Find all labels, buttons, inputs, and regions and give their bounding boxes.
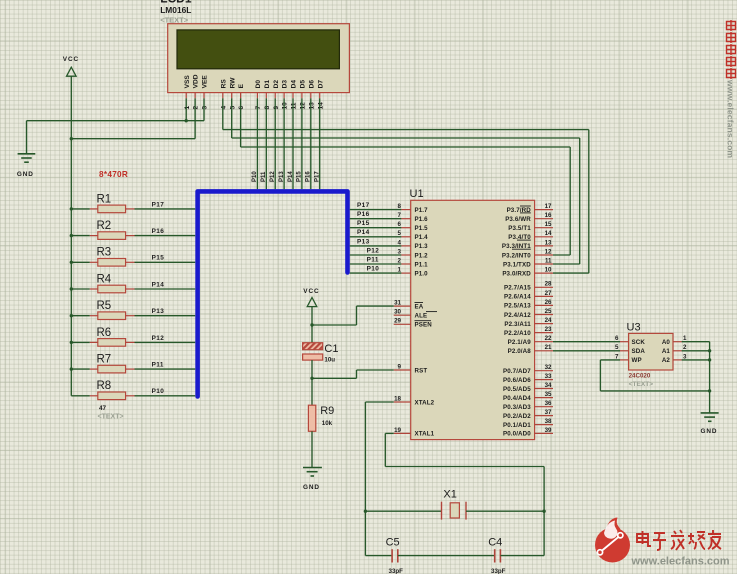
svg-text:SCK: SCK (632, 339, 646, 346)
svg-text:GND: GND (17, 171, 34, 178)
wire bus to U1 P1.3, net P13 (350, 238, 402, 246)
svg-text:6: 6 (398, 221, 402, 228)
svg-text:D6: D6 (308, 80, 315, 89)
resistor R6 (71, 327, 195, 346)
svg-text:P12: P12 (152, 335, 165, 342)
wire D5 (LCD pin12) down to bus, net P15 (297, 98, 303, 189)
ground symbol (left) (17, 154, 35, 178)
svg-text:21: 21 (545, 344, 552, 351)
U1 pin 17 (P3.7/RD) (507, 203, 553, 214)
svg-text:1: 1 (398, 267, 402, 274)
U3 pin 7 (WP) (615, 353, 642, 364)
svg-text:15: 15 (545, 221, 552, 228)
svg-text:P14: P14 (357, 229, 370, 236)
svg-text:24C020: 24C020 (629, 372, 651, 379)
svg-text:P3.0/RXD: P3.0/RXD (502, 270, 531, 277)
U1 pin 21 (P2.0/A8) (508, 344, 553, 355)
svg-text:P10: P10 (252, 171, 258, 182)
svg-text:30: 30 (394, 309, 401, 316)
U1 pin 24 (P2.3/A11) (504, 317, 553, 328)
svg-text:D4: D4 (291, 80, 298, 89)
U1 pin 1 (P1.0) (398, 267, 429, 278)
svg-text:8: 8 (398, 203, 402, 210)
U1 pin 28 (P2.7/A15) (504, 281, 553, 292)
U1 pin 36 (P0.3/AD3) (503, 400, 553, 411)
svg-text:P10: P10 (367, 266, 380, 273)
U1 pin 33 (P0.6/AD6) (503, 373, 553, 384)
wire C4 right lead (500, 555, 544, 557)
U1 pin 5 (P1.4) (398, 230, 429, 241)
wire crystal left lead (365, 510, 441, 512)
LCD1 pin 8 (D1) (264, 80, 271, 110)
wire bus to U1 P1.0, net P10 (350, 266, 402, 274)
svg-text:R4: R4 (97, 273, 112, 285)
svg-text:www.elecfans.com: www.elecfans.com (631, 556, 730, 568)
svg-text:R1: R1 (97, 193, 112, 205)
U1 pin 34 (P0.5/AD5) (503, 382, 553, 393)
svg-text:WP: WP (632, 357, 642, 364)
svg-text:P2.3/A11: P2.3/A11 (504, 321, 531, 328)
U1 pin 29 (PSEN) (394, 318, 433, 329)
svg-text:P15: P15 (297, 171, 303, 182)
svg-text:18: 18 (394, 395, 401, 402)
svg-text:GND: GND (701, 428, 718, 435)
svg-text:VCC: VCC (63, 56, 79, 63)
svg-text:VCC: VCC (303, 288, 319, 295)
svg-text:P1.3: P1.3 (415, 243, 429, 250)
wire GND stub down to ground symbol (26, 121, 28, 154)
svg-text:A0: A0 (662, 339, 671, 346)
U1 pin 7 (P1.6) (398, 212, 429, 223)
svg-text:www.elecfans.com: www.elecfans.com (726, 79, 736, 158)
wire VCC rail vertical (resistor common rail) (70, 76, 72, 396)
svg-text:5: 5 (615, 344, 619, 351)
U1 pin 37 (P0.2/AD2) (503, 409, 553, 420)
wire D7 (LCD pin14) down to bus, net P17 (315, 98, 321, 189)
svg-text:10u: 10u (324, 357, 335, 364)
svg-text:U1: U1 (410, 188, 424, 200)
svg-text:10: 10 (545, 267, 552, 274)
svg-text:36: 36 (545, 400, 552, 407)
svg-text:P0.2/AD2: P0.2/AD2 (503, 413, 531, 420)
svg-text:ALE: ALE (415, 313, 428, 320)
wire EA (pin31) to VCC rail (357, 305, 394, 307)
svg-text:R3: R3 (97, 247, 112, 259)
svg-text:8*470R: 8*470R (99, 170, 128, 179)
svg-text:13: 13 (308, 102, 315, 110)
svg-text:XTAL1: XTAL1 (415, 431, 435, 438)
svg-text:RS: RS (220, 79, 227, 89)
svg-text:P13: P13 (357, 238, 370, 245)
svg-text:C4: C4 (488, 537, 502, 549)
bus wire (blue) (198, 191, 348, 396)
wire crystal right lead (466, 510, 544, 512)
svg-text:47: 47 (99, 405, 107, 412)
svg-text:P16: P16 (357, 211, 370, 218)
svg-text:14: 14 (545, 230, 552, 237)
svg-text:9: 9 (273, 106, 280, 110)
svg-text:P2.6/A14: P2.6/A14 (504, 294, 531, 301)
svg-text:A2: A2 (662, 357, 671, 364)
U1 pin 10 (P3.0/RXD) (502, 267, 553, 278)
svg-text:33pF: 33pF (389, 568, 404, 574)
svg-text:13: 13 (545, 239, 552, 246)
ground symbol (right, below U3) (701, 413, 719, 435)
wire E (LCD pin6) to U1 P3.2 pin12 (240, 98, 242, 147)
svg-text:P13: P13 (279, 171, 285, 182)
svg-text:R2: R2 (97, 220, 112, 232)
LCD1 pin 14 (D7) (317, 80, 324, 110)
svg-text:P0.3/AD3: P0.3/AD3 (503, 404, 531, 411)
wire C1 to R9 junction (311, 360, 313, 405)
wire VSS (LCD pin1) down to GND rail (185, 98, 187, 120)
svg-text:P3.5/T1: P3.5/T1 (508, 225, 531, 232)
wire U3 A2 to ground net (682, 359, 710, 361)
svg-text:P11: P11 (152, 362, 164, 369)
svg-text:P3.1/TXD: P3.1/TXD (503, 261, 531, 268)
svg-text:P17: P17 (315, 171, 321, 182)
svg-text:D2: D2 (273, 80, 280, 89)
U1 pin 19 (XTAL1) (394, 427, 435, 438)
svg-text:P1.6: P1.6 (415, 216, 429, 223)
U1 pin 32 (P0.7/AD7) (503, 364, 553, 375)
svg-text:10k: 10k (322, 420, 333, 427)
wire VCC down to C1 (311, 307, 313, 343)
LCD1 pin 7 (D0) (255, 80, 262, 110)
wire C5 to C4 (398, 555, 495, 557)
wire U1 P2.1/A9 (pin22) to U3 SCK (553, 341, 620, 343)
svg-text:P1.7: P1.7 (415, 207, 429, 214)
svg-text:<TEXT>: <TEXT> (160, 15, 189, 24)
svg-text:P16: P16 (306, 171, 312, 182)
svg-text:XTAL2: XTAL2 (415, 399, 435, 406)
svg-text:P2.4/A12: P2.4/A12 (504, 312, 531, 319)
resistor R2 (71, 220, 195, 239)
wire RW (LCD pin5) to U1 P3.1 pin11 (231, 98, 233, 138)
LCD1 pin 6 (E) (238, 83, 245, 109)
svg-text:23: 23 (545, 326, 552, 333)
svg-text:VDD: VDD (193, 74, 200, 88)
resistor R4 (71, 273, 195, 292)
wire C5 left lead (365, 555, 392, 557)
wire U1 P2.0/A8 (pin21) to U3 SDA (553, 350, 620, 352)
U1 pin 11 (P3.1/TXD) (503, 257, 553, 268)
svg-text:P0.6/AD6: P0.6/AD6 (503, 377, 531, 384)
svg-text:10: 10 (282, 102, 289, 110)
svg-text:RST: RST (415, 367, 428, 374)
svg-text:P11: P11 (261, 171, 267, 182)
watermark text (Chinese glyph strokes) (637, 530, 721, 550)
svg-text:D3: D3 (282, 80, 289, 89)
svg-text:U3: U3 (627, 322, 641, 334)
LCD1 pin 5 (RW) (229, 77, 236, 110)
svg-text:LM016L: LM016L (160, 5, 191, 15)
svg-text:2: 2 (398, 257, 402, 264)
svg-text:RW: RW (229, 77, 236, 89)
svg-text:P2.7/A15: P2.7/A15 (504, 285, 531, 292)
svg-text:R7: R7 (97, 354, 112, 366)
svg-text:7: 7 (255, 106, 262, 110)
capacitor C4 33pF (488, 537, 505, 574)
svg-text:12: 12 (545, 248, 552, 255)
U1 pin 16 (P3.6/WR) (505, 212, 553, 223)
U1 pin 30 (ALE) (394, 309, 437, 320)
svg-text:D5: D5 (300, 80, 307, 89)
wire U3 A0 to ground net (682, 341, 710, 343)
svg-text:P0.1/AD1: P0.1/AD1 (503, 422, 531, 429)
svg-text:9: 9 (398, 363, 402, 370)
U1 pin 14 (P3.4/T0) (508, 230, 553, 241)
svg-text:26: 26 (545, 299, 552, 306)
svg-text:38: 38 (545, 418, 552, 425)
crystal X1 (442, 489, 467, 520)
U1 pin 23 (P2.2/A10) (504, 326, 553, 337)
LCD1 pin 2 (VDD) (193, 74, 200, 109)
svg-text:14: 14 (317, 102, 324, 110)
svg-text:34: 34 (545, 382, 552, 389)
U1 pin 3 (P1.2) (398, 248, 429, 259)
svg-text:5: 5 (229, 106, 236, 110)
wire bus to U1 P1.4, net P14 (350, 229, 402, 237)
svg-text:C1: C1 (324, 343, 338, 355)
svg-text:SDA: SDA (632, 348, 646, 355)
wire U3 WP to ground net (600, 359, 620, 361)
svg-text:37: 37 (545, 409, 552, 416)
wire D1 (LCD pin8) down to bus, net P11 (261, 98, 267, 189)
svg-text:17: 17 (545, 203, 552, 210)
svg-text:24: 24 (545, 317, 552, 324)
svg-text:R5: R5 (97, 300, 112, 312)
svg-text:29: 29 (394, 318, 401, 325)
svg-text:<TEXT>: <TEXT> (98, 413, 124, 420)
svg-text:3: 3 (202, 106, 209, 110)
LCD1 pin 4 (RS) (220, 79, 227, 110)
svg-text:D7: D7 (317, 80, 324, 89)
wire VDD (LCD pin2) down and left to VCC rail (194, 98, 196, 138)
U1 pin 35 (P0.4/AD4) (503, 391, 553, 402)
resistor R3 (71, 247, 195, 266)
U1 pin 22 (P2.1/A9) (508, 335, 553, 346)
svg-text:R9: R9 (320, 405, 334, 417)
svg-text:4: 4 (220, 106, 227, 110)
MCU U1 (8051) body (410, 188, 535, 440)
watermark vertical text (right edge) (727, 20, 736, 79)
svg-text:P0.4/AD4: P0.4/AD4 (503, 395, 531, 402)
capacitor C1 10u (electrolytic) (303, 343, 339, 364)
U1 pin 8 (P1.7) (398, 203, 429, 214)
wire bus to U1 P1.7, net P17 (350, 202, 402, 210)
U3 pin 1 (A0) (662, 335, 687, 346)
LCD1 pin 9 (D2) (273, 80, 280, 110)
wire RST (pin9) to C1/R9 junction (357, 369, 394, 371)
svg-text:P1.2: P1.2 (415, 252, 429, 259)
svg-text:C5: C5 (386, 537, 400, 549)
svg-text:P2.0/A8: P2.0/A8 (508, 348, 532, 355)
resistor R7 (71, 354, 195, 373)
svg-text:31: 31 (394, 300, 401, 307)
svg-text:27: 27 (545, 290, 552, 297)
LCD1 pin 11 (D4) (291, 80, 298, 110)
U3 pin 3 (A2) (662, 353, 687, 364)
LCD1 pin 1 (VSS) (184, 75, 191, 110)
wire RS (LCD pin4) to U1 P3.0 pin10 (222, 98, 224, 129)
svg-text:D1: D1 (264, 80, 271, 89)
svg-text:P0.5/AD5: P0.5/AD5 (503, 386, 531, 393)
svg-text:P10: P10 (152, 388, 165, 395)
U1 pin 31 (EA) (394, 300, 424, 311)
wire XTAL1 (pin19) route right side (385, 432, 393, 434)
wire D2 (LCD pin9) down to bus, net P12 (270, 98, 276, 189)
svg-text:VSS: VSS (184, 75, 191, 89)
power flag VCC (left) (63, 56, 79, 76)
LCD1 pin 10 (D3) (282, 80, 289, 110)
svg-text:P15: P15 (357, 220, 370, 227)
svg-text:6: 6 (238, 106, 245, 110)
wire bus to U1 P1.2, net P12 (350, 247, 402, 255)
svg-text:22: 22 (545, 335, 552, 342)
svg-text:25: 25 (545, 308, 552, 315)
wire bus to U1 P1.6, net P16 (350, 211, 402, 219)
svg-text:P12: P12 (270, 171, 276, 182)
LCD display LCD1 (LM016L) (160, 0, 349, 93)
svg-text:11: 11 (545, 257, 552, 264)
svg-text:P16: P16 (152, 228, 165, 235)
LCD1 pin 13 (D6) (308, 80, 315, 110)
svg-text:GND: GND (303, 484, 320, 491)
svg-text:P17: P17 (357, 202, 370, 209)
svg-text:4: 4 (398, 239, 402, 246)
LCD1 pin 3 (VEE) (202, 75, 209, 110)
svg-text:X1: X1 (443, 489, 456, 501)
svg-text:39: 39 (545, 427, 552, 434)
svg-text:2: 2 (193, 106, 200, 110)
wire VEE (LCD pin3) down to GND rail (203, 98, 205, 120)
svg-text:5: 5 (398, 230, 402, 237)
resistor R5 (71, 300, 195, 319)
U3 pin 5 (SDA) (615, 344, 645, 355)
svg-text:P11: P11 (367, 256, 379, 263)
wire bus to U1 P1.5, net P15 (350, 220, 402, 228)
wire D6 (LCD pin13) down to bus, net P16 (306, 98, 312, 189)
wire GND rail horizontal (27, 120, 205, 122)
U3 pin 2 (A1) (662, 344, 687, 355)
svg-text:1: 1 (184, 106, 191, 110)
wire bus to U1 P1.1, net P11 (350, 256, 402, 264)
svg-text:35: 35 (545, 391, 552, 398)
svg-text:EA: EA (415, 303, 424, 310)
wire U3 A1 to ground net (682, 350, 710, 352)
power flag VCC (middle) (303, 288, 319, 307)
svg-text:P14: P14 (152, 281, 165, 288)
wire D0 (LCD pin7) down to bus, net P10 (252, 98, 258, 189)
capacitor C5 33pF (386, 537, 404, 574)
svg-text:R6: R6 (97, 327, 112, 339)
U1 pin 25 (P2.4/A12) (504, 308, 553, 319)
svg-text:P1.1: P1.1 (415, 261, 429, 268)
U1 pin 18 (XTAL2) (394, 395, 435, 406)
svg-text:19: 19 (394, 427, 401, 434)
svg-text:P0.7/AD7: P0.7/AD7 (503, 368, 531, 375)
svg-text:11: 11 (291, 102, 298, 109)
svg-text:P14: P14 (288, 171, 294, 182)
U1 pin 9 (RST) (394, 363, 428, 374)
svg-text:P2.1/A9: P2.1/A9 (508, 339, 532, 346)
resistor R9 10k (308, 405, 334, 432)
svg-text:32: 32 (545, 364, 552, 371)
U1 pin 15 (P3.5/T1) (508, 221, 553, 232)
svg-text:P12: P12 (367, 247, 380, 254)
LCD1 pin 12 (D5) (300, 80, 307, 110)
svg-text:E: E (238, 83, 245, 88)
ground symbol (middle, below R9) (303, 468, 322, 492)
wire A0/A1/A2 vertical down to ground (709, 342, 711, 413)
watermark elecfans logo (red disc) (595, 518, 630, 563)
wire XTAL2 (pin18) to crystal/C5 (365, 401, 393, 403)
svg-text:P0.0/AD0: P0.0/AD0 (503, 431, 531, 438)
U1 pin 26 (P2.5/A13) (504, 299, 553, 310)
svg-text:P2.5/A13: P2.5/A13 (504, 303, 531, 310)
U1 pin 38 (P0.1/AD1) (503, 418, 553, 429)
svg-text:P1.0: P1.0 (415, 270, 429, 277)
svg-text:P13: P13 (152, 308, 165, 315)
svg-text:33: 33 (545, 373, 552, 380)
wire D4 (LCD pin11) down to bus, net P14 (288, 98, 294, 189)
svg-text:3: 3 (398, 248, 402, 255)
svg-text:P17: P17 (152, 201, 165, 208)
svg-text:PSEN: PSEN (415, 322, 433, 329)
svg-text:6: 6 (615, 335, 619, 342)
svg-text:VEE: VEE (202, 75, 209, 89)
svg-text:<TEXT>: <TEXT> (629, 381, 654, 388)
svg-text:A1: A1 (662, 348, 671, 355)
resistor R1 (71, 193, 195, 212)
U3 pin 6 (SCK) (615, 335, 645, 346)
svg-text:P3.6/WR: P3.6/WR (505, 216, 531, 223)
svg-text:P1.5: P1.5 (415, 225, 429, 232)
svg-text:P3.2/INT0: P3.2/INT0 (502, 252, 531, 259)
svg-text:P15: P15 (152, 255, 165, 262)
svg-text:P1.4: P1.4 (415, 234, 429, 241)
svg-text:8: 8 (264, 106, 271, 110)
svg-text:28: 28 (545, 281, 552, 288)
EEPROM U3 24C020 body (627, 322, 674, 388)
svg-text:D0: D0 (255, 80, 262, 89)
U1 pin 12 (P3.2/INT0) (502, 248, 553, 259)
wire R9 to ground (311, 431, 313, 467)
svg-text:16: 16 (545, 212, 552, 219)
wire D3 (LCD pin10) down to bus, net P13 (279, 98, 285, 189)
svg-text:33pF: 33pF (491, 568, 506, 574)
U1 pin 39 (P0.0/AD0) (503, 427, 553, 438)
svg-text:P2.2/A10: P2.2/A10 (504, 330, 531, 337)
U1 pin 6 (P1.5) (398, 221, 429, 232)
U1 pin 13 (P3.3/INT1) (502, 239, 553, 250)
U1 pin 27 (P2.6/A14) (504, 290, 553, 301)
svg-text:12: 12 (300, 102, 307, 110)
svg-text:7: 7 (398, 212, 402, 219)
U1 pin 4 (P1.3) (398, 239, 429, 250)
svg-text:R8: R8 (97, 380, 112, 392)
U1 pin 2 (P1.1) (398, 257, 429, 268)
resistor R8 (71, 380, 195, 399)
